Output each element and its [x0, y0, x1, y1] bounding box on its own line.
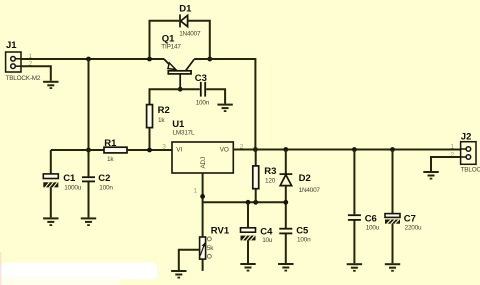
ground (RV1 wiper) — [171, 270, 186, 279]
wire: U1 ADJ stub — [202, 173, 204, 237]
svg-text:J2: J2 — [461, 132, 472, 143]
svg-text:RV1: RV1 — [211, 226, 230, 237]
RV1 terminal mark bottom — [207, 254, 211, 258]
wire: C1 to ground — [50, 187, 52, 217]
node: D2/C5/ADJ row junction — [283, 200, 288, 205]
op-amp/regulator U1 — [172, 142, 233, 173]
svg-text:D2: D2 — [299, 173, 311, 184]
svg-text:1N4007: 1N4007 — [179, 30, 201, 37]
RV1 terminal mark top — [207, 237, 211, 241]
node: base row junction — [178, 87, 183, 92]
ground (C5) — [278, 263, 293, 272]
wire: C2 to ground — [88, 182, 90, 217]
svg-text:C1: C1 — [63, 173, 76, 184]
ground (C1) — [43, 217, 58, 226]
wire: C7 to ground — [392, 224, 394, 264]
node: ADJ junction — [200, 194, 205, 199]
potentiometer RV1 — [200, 237, 206, 259]
svg-text:C5: C5 — [296, 225, 309, 236]
svg-text:1k: 1k — [107, 156, 114, 163]
node: C4 top junction — [246, 200, 251, 205]
node: VI row / filter column junction — [86, 148, 91, 153]
ground (C3) — [217, 104, 232, 112]
wire: RV1 wiper to ground — [179, 250, 200, 270]
ground (C7) — [385, 263, 400, 271]
wire: VO row — [233, 149, 460, 151]
connector J1 — [6, 52, 21, 72]
svg-text:1: 1 — [450, 143, 454, 150]
svg-text:3: 3 — [162, 144, 166, 151]
wire: C4 to ground — [247, 240, 249, 263]
capacitor C3 — [201, 82, 205, 97]
wire: base row to R2 — [150, 89, 181, 104]
svg-text:ADJ: ADJ — [200, 157, 207, 168]
node: R2 bottom junction — [147, 148, 152, 153]
svg-text:1000u: 1000u — [64, 185, 81, 192]
svg-text:10u: 10u — [262, 237, 273, 244]
white artifact blob bottom-left — [0, 263, 157, 285]
node: D1 bypass left junction — [147, 57, 152, 62]
wire: C3 to ground — [206, 89, 225, 103]
ground (C4) — [240, 263, 255, 272]
wire: VI row down to C2 — [88, 150, 90, 176]
resistor R2 — [147, 105, 153, 128]
capacitor C7 (electrolytic) — [390, 147, 395, 152]
wire: D2 anode down to C5 — [285, 186, 287, 229]
capacitor C5 — [279, 229, 292, 234]
ground (C6) — [347, 263, 362, 271]
svg-text:C7: C7 — [404, 213, 416, 224]
capacitor C4 (electrolytic) — [247, 202, 249, 227]
svg-text:R3: R3 — [264, 166, 276, 177]
RV1 wiper arrow — [200, 243, 205, 256]
node: VO pin junction — [253, 147, 258, 152]
svg-text:TBLOCK-M2: TBLOCK-M2 — [6, 75, 41, 82]
svg-text:VO: VO — [220, 147, 229, 154]
wire: Q1 collector to output drop — [194, 59, 255, 150]
svg-text:2200u: 2200u — [405, 224, 422, 231]
svg-text:U1: U1 — [172, 119, 185, 130]
svg-text:VI: VI — [176, 147, 182, 154]
transistor Q1 — [164, 59, 194, 89]
wire: VI row down to C1 — [50, 150, 52, 174]
wire: R1 to U1 VI pin — [127, 149, 172, 151]
svg-text:100n: 100n — [196, 99, 210, 106]
svg-text:TIP147: TIP147 — [161, 44, 181, 51]
wire: R2 bottom to VI row — [149, 128, 151, 150]
wire: ADJ row — [203, 201, 286, 203]
wire: C6 to ground — [353, 221, 355, 264]
svg-text:R1: R1 — [104, 138, 117, 149]
svg-text:100n: 100n — [99, 185, 113, 192]
svg-text:D1: D1 — [179, 3, 192, 14]
svg-text:1N4007: 1N4007 — [299, 187, 321, 194]
resistor R3 — [255, 150, 257, 166]
wire: D1 to bypass right leg — [188, 21, 210, 59]
ground (C2) — [81, 217, 96, 226]
wire: input rail down to VI row — [88, 59, 90, 150]
wire: C5 to ground — [285, 234, 287, 263]
wire: D1 bypass left leg — [150, 21, 180, 59]
wire: VI row C1 to R1 — [51, 149, 104, 151]
resistor R1 — [104, 147, 127, 153]
ground (J2 pin2) — [423, 171, 438, 180]
svg-text:C2: C2 — [98, 173, 110, 184]
capacitor C6 — [352, 147, 357, 152]
svg-text:100n: 100n — [297, 236, 311, 243]
svg-text:1: 1 — [194, 188, 198, 195]
wire: base row to C3 — [180, 88, 200, 90]
svg-text:120: 120 — [265, 178, 276, 185]
node: D1 bypass right junction — [207, 57, 212, 62]
svg-text:5k: 5k — [207, 245, 214, 252]
ground (J1 pin2) — [43, 81, 58, 89]
wire: R3 bottom to ADJ row — [255, 189, 257, 203]
svg-text:R2: R2 — [158, 105, 170, 116]
wire: J2 pin2 to ground — [431, 157, 461, 171]
connector J2 — [461, 142, 476, 165]
svg-text:C6: C6 — [365, 213, 377, 224]
svg-text:100u: 100u — [366, 224, 380, 231]
node: input rail / filter column junction — [86, 57, 91, 62]
svg-text:1k: 1k — [158, 117, 165, 124]
wire: RV1 bottom stub — [202, 259, 204, 271]
wire: J1 pin1 to Q1 emitter (main input rail) — [21, 58, 164, 60]
diode D2 — [283, 147, 288, 152]
node: R3 bottom junction — [253, 200, 258, 205]
svg-text:LM317L: LM317L — [173, 129, 196, 136]
diode D1 — [180, 14, 188, 27]
svg-text:C4: C4 — [260, 227, 273, 238]
wire: J1 pin2 to ground — [21, 66, 51, 81]
faint pink scan artifact left edge — [0, 252, 1, 285]
svg-text:C3: C3 — [195, 73, 207, 84]
svg-text:TBLOCK-M2: TBLOCK-M2 — [461, 167, 480, 174]
svg-text:J1: J1 — [6, 40, 17, 51]
